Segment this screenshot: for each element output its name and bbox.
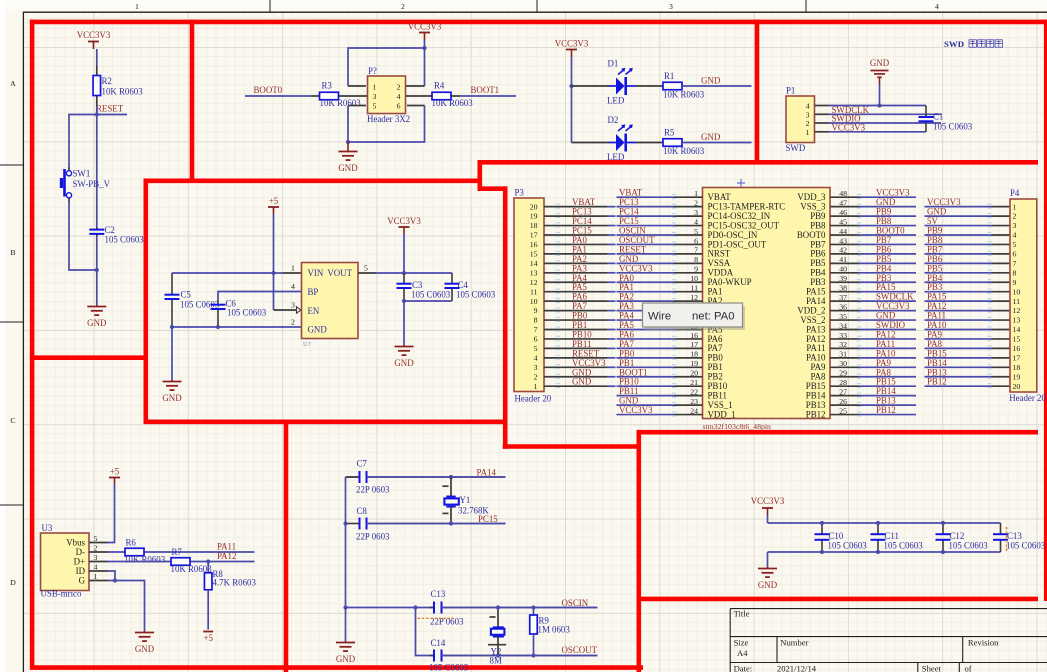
wire left rail (crystals) [345,477,347,641]
junction C5/GND row [170,325,174,329]
svg-text:10: 10 [1013,287,1021,296]
svg-text:C12: C12 [950,531,965,541]
wire P4 pin 1 (VCC3V3) [925,206,992,208]
svg-text:2: 2 [694,198,698,207]
svg-text:D1: D1 [608,59,619,69]
svg-text:105 C0603: 105 C0603 [1006,541,1046,551]
svg-text:4: 4 [806,101,810,110]
svg-text:3: 3 [694,208,698,217]
capacitor C5 [165,273,220,327]
wire EN row [274,309,297,311]
wire P4 pin 9 (PB4) [925,281,992,283]
svg-text:P?: P? [368,66,377,76]
wire P3 pin 12 (PA4) [544,281,607,283]
ground (regulator right) [394,345,414,368]
svg-text:8: 8 [534,316,538,325]
svg-text:Sheet: Sheet [922,664,942,672]
svg-text:VDD_1: VDD_1 [708,409,736,419]
svg-text:GND: GND [162,393,182,403]
svg-text:Revision: Revision [968,638,999,648]
svg-text:4: 4 [94,563,98,572]
wire P4 pin 4 (PB9) [925,234,992,236]
svg-text:Header 20: Header 20 [515,394,552,404]
junction C10 top [820,521,824,525]
svg-text:R1: R1 [664,71,674,81]
svg-text:VIN: VIN [308,268,324,278]
wire P3 pin 5 (PB11) [544,347,607,349]
wire P4 pin 8 (PB5) [925,272,992,274]
svg-text:10K R0603: 10K R0603 [663,90,705,100]
tooltip Wire net PA0 [643,303,746,330]
ground (cap bank) [758,567,778,590]
svg-text:C2: C2 [105,225,115,235]
svg-text:R7: R7 [172,547,183,557]
wire mcu pin 4 (PC15) [617,225,675,227]
svg-text:PB12: PB12 [806,409,826,419]
svg-text:PC15: PC15 [478,514,498,524]
svg-text:40: 40 [839,265,847,274]
ground (usb) [135,631,155,654]
crystal Y1 32.768K [442,477,489,524]
svg-text:12: 12 [690,293,698,302]
power port VCC3V3 (cap bank) [751,496,785,515]
svg-text:2: 2 [291,318,295,327]
junction C8 left [343,521,347,525]
svg-text:Header 3X2: Header 3X2 [367,114,410,124]
svg-text:PA12: PA12 [217,551,236,561]
svg-text:Vbus: Vbus [66,538,85,548]
wire P4 pin 17 (PB15) [925,357,992,359]
svg-text:1: 1 [694,189,698,198]
ground (swd) [870,58,890,84]
wire G row to ground [108,581,145,632]
svg-text:Date:: Date: [734,664,753,672]
svg-text:C7: C7 [357,459,368,469]
capacitor C3 [397,273,451,301]
wire mcu pin 24 (VCC3V3) [617,414,675,416]
svg-text:14: 14 [530,259,538,268]
wire mcu pin 37 (SWDCLK) [830,300,859,302]
junction SW1 branch [95,268,99,272]
ground (regulator left) [162,380,182,403]
wire PA14 row [346,476,360,478]
svg-text:PA11: PA11 [217,542,236,552]
svg-text:LED: LED [607,96,625,106]
power port +5 (regulator) [268,196,279,214]
svg-text:3: 3 [1013,221,1017,230]
svg-text:GND: GND [701,76,721,86]
wire D- row [108,551,125,553]
svg-text:20: 20 [530,202,538,211]
svg-text:8M: 8M [490,656,502,666]
svg-text:R2: R2 [102,76,112,86]
wire mcu pin 36 (VCC3V3) [830,310,859,312]
resistor R6 [124,538,166,565]
wire header pins 5/6 to gnd [348,105,366,107]
svg-text:17: 17 [690,340,698,349]
connector U3 USB-mrico [41,523,90,599]
svg-text:7: 7 [694,246,698,255]
wire mcu pin 30 (PA9) [830,366,859,368]
capacitor C8 [346,506,506,542]
junction R9 top [531,605,535,609]
svg-text:R6: R6 [126,538,137,548]
wire P3 pin 14 (PA2) [544,262,607,264]
svg-text:C3: C3 [412,280,423,290]
svg-text:10K R0603: 10K R0603 [102,87,144,97]
svg-text:31: 31 [839,350,847,359]
wire mcu pin 44 (BOOT0) [830,234,859,236]
svg-text:105 C0603: 105 C0603 [949,541,989,551]
svg-text:4: 4 [397,92,401,101]
svg-text:14: 14 [1013,325,1021,334]
svg-text:GND: GND [308,325,328,335]
svg-text:6: 6 [694,236,698,245]
svg-text:BOOT0: BOOT0 [254,85,283,95]
svg-text:C: C [10,416,15,425]
wire P4 pin 15 (PA9) [925,338,992,340]
svg-text:5: 5 [1013,240,1017,249]
svg-text:1: 1 [135,2,139,11]
svg-text:7: 7 [1013,259,1017,268]
wire cap bank bottom rail [768,551,1001,553]
wire mcu pin 43 (PB7) [830,243,859,245]
svg-text:Title: Title [734,609,750,619]
region border lines [30,20,1047,25]
wire P3 pin 4 (RESET) [544,357,607,359]
wire R8 top [207,562,209,574]
wire mcu pin 10 (PA0) [617,281,675,283]
wire branch to SW1 [69,115,97,168]
junction ID/G [113,578,117,582]
wire R8 bottom [207,590,209,630]
svg-text:34: 34 [839,321,847,330]
wire mcu pin 2 (PC13) [617,206,675,208]
wire mcu pin 1 (VBAT) [617,196,675,198]
svg-text:Size: Size [734,638,749,648]
svg-text:36: 36 [839,302,847,311]
junction C12 top [941,521,945,525]
svg-text:27: 27 [839,387,847,396]
svg-text:35: 35 [839,312,847,321]
wire mcu pin 12 (PA2) [617,300,675,302]
wire P3 pin 1 (GND) [544,385,607,387]
svg-text:22P 0603: 22P 0603 [356,532,390,542]
svg-text:OSCOUT: OSCOUT [562,645,598,655]
wire R4 row [406,95,432,97]
wire ID to G [108,571,115,581]
svg-text:10K R0603: 10K R0603 [124,555,166,565]
resistor R8 [204,569,256,590]
junction (boot vcc) [422,46,426,50]
wire mcu pin 18 (PB0) [617,357,675,359]
junction OSCIN rail [343,605,347,609]
svg-text:3: 3 [94,553,98,562]
wire mcu pin 33 (PA12) [830,338,859,340]
text SWD interface title [944,39,1003,49]
svg-text:D-: D- [76,547,85,557]
wire mcu pin 6 (OSCOUT) [617,243,675,245]
svg-text:U3: U3 [42,523,53,533]
wire mcu pin 32 (PA11) [830,347,859,349]
svg-text:3: 3 [291,301,295,310]
svg-text:GND: GND [338,163,358,173]
svg-text:10: 10 [530,297,538,306]
svg-text:32: 32 [839,340,847,349]
svg-text:105 C0603: 105 C0603 [456,290,496,300]
svg-text:+5: +5 [203,633,213,643]
wire SW1 to junction below C2 [69,202,97,270]
svg-text:4: 4 [291,282,295,291]
svg-text:3: 3 [534,363,538,372]
svg-text:26: 26 [839,397,847,406]
wire P3 pin 6 (PB10) [544,338,607,340]
svg-text:48: 48 [839,189,847,198]
power port VCC3V3 (regulator) [387,216,421,234]
svg-text:1: 1 [94,572,98,581]
svg-text:1: 1 [534,382,538,391]
svg-text:VOUT: VOUT [327,268,352,278]
wire mcu pin 39 (PB3) [830,281,859,283]
ground (reset) [87,305,107,328]
junction C6/GND row [216,325,220,329]
junction swd gnd [877,103,881,107]
wire P4 pin 7 (PB6) [925,262,992,264]
capacitor C13 (22P) [430,589,598,627]
wire mcu pin 48 (VCC3V3) [830,196,859,198]
svg-text:10K R0603: 10K R0603 [432,98,474,108]
svg-text:4: 4 [1013,231,1017,240]
svg-text:5: 5 [373,101,377,110]
wire GND row [172,326,301,328]
svg-text:10K R0603: 10K R0603 [320,98,362,108]
svg-text:SWD: SWD [786,143,806,153]
svg-text:46: 46 [839,208,847,217]
capacitor C7 [346,459,506,495]
wire P3 pin 3 (VCC3V3) [544,366,607,368]
svg-text:1: 1 [291,264,295,273]
svg-text:VCC3V3: VCC3V3 [387,216,421,226]
svg-text:SW-PB_V: SW-PB_V [73,179,111,189]
svg-text:19: 19 [690,359,698,368]
svg-text:+5: +5 [110,467,120,477]
svg-text:9: 9 [534,306,538,315]
wire cap bank top rail [767,515,769,523]
svg-text:ID: ID [76,566,86,576]
wire P4 pin 12 (PA12) [925,310,992,312]
svg-text:VCC3V3: VCC3V3 [77,30,111,40]
wire D1 to R1 [636,85,664,87]
svg-text:P3: P3 [515,188,525,198]
wire C5 to ground [171,327,173,380]
wire vcc stem to VOUT [403,234,405,273]
svg-text:VCC3V3: VCC3V3 [619,405,653,415]
wire R5 to GND net [682,142,752,144]
wire P3 pin 7 (PB1) [544,329,607,331]
svg-text:17: 17 [1013,353,1021,362]
svg-text:30: 30 [839,359,847,368]
svg-text:5: 5 [364,264,368,273]
svg-text:25: 25 [839,406,847,415]
wire mcu pin 35 (GND) [830,319,859,321]
wire mcu pin 38 (PA15) [830,291,859,293]
svg-text:4: 4 [935,2,939,11]
wire mcu pin 46 (PB9) [830,215,859,217]
svg-text:2: 2 [806,119,810,128]
wire P3 pin 17 (PC15) [544,234,607,236]
resistor R5 [663,128,705,157]
wire P4 pin 13 (PA11) [925,319,992,321]
svg-text:105 C0603: 105 C0603 [429,663,469,672]
wire P4 pin 16 (PA8) [925,347,992,349]
wire C13/C14 branch [416,608,435,656]
junction (boot gnd) [346,140,350,144]
junction VOUT/vcc [402,271,406,275]
svg-text:6: 6 [397,101,401,110]
svg-text:GND: GND [572,377,592,387]
svg-text:29: 29 [839,369,847,378]
svg-text:1: 1 [806,128,810,137]
wire VIN row [172,272,283,274]
svg-text:7: 7 [534,325,538,334]
wire rail to ground [767,552,769,567]
wire C4 bottom to C3 [404,300,452,302]
wire C8 right / PC15 row [367,523,506,525]
svg-text:6: 6 [1013,250,1017,259]
svg-text:RESET: RESET [96,104,124,114]
svg-text:28: 28 [839,378,847,387]
svg-text:5: 5 [94,534,98,543]
svg-text:LED: LED [607,152,625,162]
svg-text:8: 8 [1013,268,1017,277]
wire R1 to GND net [682,85,752,87]
wire P1.1 VCC3V3 [815,131,830,133]
wire P1.2 SWDIO [815,122,830,124]
svg-text:Wire: Wire [648,311,671,323]
svg-text:21: 21 [690,378,698,387]
ground (boot) [338,142,358,173]
wire P4 pin 5 (PB8) [925,243,992,245]
svg-text:PA14: PA14 [477,468,497,478]
wire mcu pin 17 (PA7) [617,347,675,349]
junction C10 bottom [820,550,824,554]
connector P4 Header 20 [1009,188,1046,403]
wire P4 pin 14 (PA10) [925,329,992,331]
svg-text:GND: GND [135,644,155,654]
svg-text:3: 3 [806,110,810,119]
wire OSCOUT row [442,655,598,657]
svg-text:18: 18 [530,221,538,230]
junction branch [413,605,417,609]
svg-text:3: 3 [373,92,377,101]
svg-text:GND: GND [394,358,414,368]
power port VCC3V3 (reset) [77,30,111,49]
svg-text:GND: GND [87,318,107,328]
wire P3 pin 11 (PA5) [544,291,607,293]
resistor R4 [432,81,474,109]
wire gnd stem (swd) [879,84,881,106]
svg-text:105 C0603: 105 C0603 [411,290,451,300]
svg-text:13: 13 [1013,316,1021,325]
svg-text:10K R0603: 10K R0603 [663,146,705,156]
wire mcu pin 13 (PA3) [617,310,675,312]
svg-text:P1: P1 [786,86,795,96]
svg-text:1: 1 [1013,202,1017,211]
wire VCC3V3 to header pins 1/2 [424,40,426,48]
svg-text:GND: GND [336,654,356,664]
svg-text:VCC3V3: VCC3V3 [555,39,589,49]
svg-text:2: 2 [534,372,538,381]
svg-text:D+: D+ [74,557,85,567]
svg-text:8: 8 [694,255,698,264]
wire P4 pin 6 (PB7) [925,253,992,255]
svg-text:2: 2 [94,544,98,553]
svg-text:17: 17 [530,231,538,240]
svg-text:R4: R4 [434,81,445,91]
svg-text:4.7K R0603: 4.7K R0603 [213,578,257,588]
svg-text:2: 2 [1013,212,1017,221]
wire P4 pin 20 (PB12) [925,385,992,387]
svg-text:PB12: PB12 [927,377,947,387]
svg-text:stm32f103c8t6_48pin: stm32f103c8t6_48pin [703,422,772,431]
svg-text:A: A [10,79,16,88]
svg-text:6: 6 [534,335,538,344]
svg-text:4: 4 [694,217,698,226]
svg-text:Number: Number [780,638,808,648]
wire mcu pin 16 (PA6) [617,338,675,340]
svg-text:+5: +5 [269,196,279,206]
svg-text:105 C0603: 105 C0603 [828,541,868,551]
capacitor C10 (bank) [815,523,868,552]
resistor R9 [530,608,571,656]
LED D2 [572,115,636,162]
svg-text:GND: GND [870,58,890,68]
svg-text:47: 47 [839,198,847,207]
svg-text:12: 12 [1013,306,1021,315]
resistor R1 [663,71,705,100]
wire mcu pin 41 (PB5) [830,262,859,264]
power port VCC3V3 (led) [555,39,589,58]
wire mcu pin 31 (PA10) [830,357,859,359]
svg-text:105 C0603: 105 C0603 [933,122,973,132]
svg-text:5: 5 [534,344,538,353]
svg-text:4: 4 [534,353,538,362]
svg-text:D2: D2 [608,115,619,125]
svg-text:BOOT1: BOOT1 [471,85,500,95]
junction (led) [569,84,573,88]
EN input arrow [297,307,302,313]
junction C12 bottom [941,550,945,554]
svg-text:19: 19 [1013,372,1021,381]
junction D+/R8 [206,559,210,563]
svg-text:C11: C11 [885,531,899,541]
wire VOUT row [358,272,376,274]
title block table [730,609,1047,672]
junction Y1 top [449,475,453,479]
svg-text:11: 11 [690,284,698,293]
svg-text:15: 15 [530,250,538,259]
junction C3 bottom [402,299,406,303]
svg-text:BP: BP [308,287,319,297]
svg-text:GND: GND [701,132,721,142]
svg-text:2021/12/14: 2021/12/14 [777,664,817,672]
svg-text:P4: P4 [1010,188,1020,198]
capacitor C13 (bank) [993,523,1046,552]
orange highlight (C13 bank) [1006,527,1008,551]
wire mcu pin 20 (BOOT1) [617,376,675,378]
resistor R2 [93,66,143,107]
wire P1.3 SWDCLK [815,113,830,115]
